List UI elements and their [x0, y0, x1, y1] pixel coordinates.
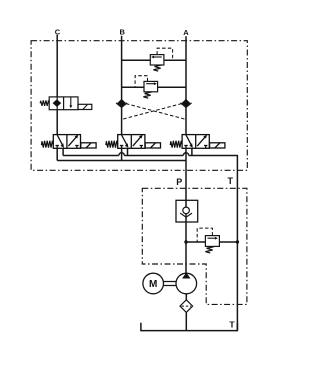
svg-text:B: B [119, 27, 125, 36]
tank [141, 323, 238, 331]
wire B line [121, 36, 123, 135]
RV2 spring [143, 92, 151, 98]
wire rung B-A lower [122, 86, 186, 88]
junction node on P [184, 240, 187, 243]
3/2 solenoid valve V3 (line B) [106, 135, 161, 149]
wire P bus [57, 160, 186, 162]
wire relief rung P-T [186, 241, 237, 243]
CV1 seat [180, 213, 192, 217]
wire pump to filter [185, 294, 187, 300]
svg-text:T: T [229, 319, 235, 329]
pilot operated check valve A (poppet diamond) [181, 99, 192, 108]
V1 solenoid [78, 104, 92, 109]
manifold enclosure (dash-dot) [31, 41, 247, 171]
junction node on T [236, 240, 239, 243]
relief valve RV3 body [205, 236, 219, 247]
RV1 spring [153, 65, 161, 71]
RV3 pilot line (dashed) [197, 228, 212, 242]
coupling [164, 282, 177, 286]
wire V3 ports to buses [122, 148, 128, 160]
svg-text:A: A [183, 28, 189, 37]
wire V2 ports to buses [57, 148, 63, 160]
V1 spring [40, 100, 49, 105]
V1 flow arrow [69, 97, 72, 108]
svg-text:P: P [176, 177, 182, 187]
RV3 spring [205, 247, 213, 253]
pilot line X (dashed) [122, 104, 186, 120]
svg-text:T: T [227, 176, 233, 186]
CV1 ball [183, 207, 190, 214]
wire C line mid [56, 110, 58, 135]
wire A line [185, 36, 187, 134]
check valve CV1 box [176, 200, 198, 222]
pump P1 [176, 272, 197, 293]
relief valve RV2 body [144, 81, 158, 91]
suction filter F1 [180, 300, 193, 313]
svg-text:M: M [149, 279, 157, 290]
wire rung B-A upper [122, 59, 186, 61]
wire V4 ports down [186, 148, 192, 160]
electric motor M1 [143, 273, 164, 294]
relief valve RV1 body [150, 55, 164, 65]
3/2 solenoid valve V2 (line C) [41, 135, 96, 149]
V1 check poppet (diamond) [53, 99, 62, 107]
wire filter to tank [185, 312, 187, 330]
pilot operated check valve B (poppet diamond) [116, 99, 127, 108]
wire T bus with hops and T line down [63, 153, 237, 330]
CV1 line through box [185, 200, 187, 222]
RV1 pilot line (dashed) [157, 48, 173, 60]
solenoid cartridge valve V1 body [49, 97, 78, 110]
3/2 solenoid valve V4 (line A) [170, 135, 225, 149]
wire C line upper [56, 35, 58, 97]
wire P line down [185, 161, 187, 274]
power unit enclosure (dash-dot) [142, 188, 247, 304]
RV2 pilot line (dashed) [135, 76, 147, 88]
